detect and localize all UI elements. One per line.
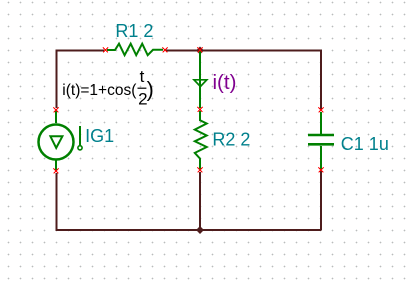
svg-text:IG1: IG1 [85,126,114,146]
svg-text:t: t [140,67,145,86]
svg-text:C1 1u: C1 1u [341,134,389,154]
svg-text:): ) [147,78,154,102]
svg-text:i(t)=1+cos(: i(t)=1+cos( [62,82,137,99]
svg-text:i(t): i(t) [213,71,237,94]
svg-text:R1 2: R1 2 [115,21,153,41]
svg-text:R2 2: R2 2 [212,129,250,149]
